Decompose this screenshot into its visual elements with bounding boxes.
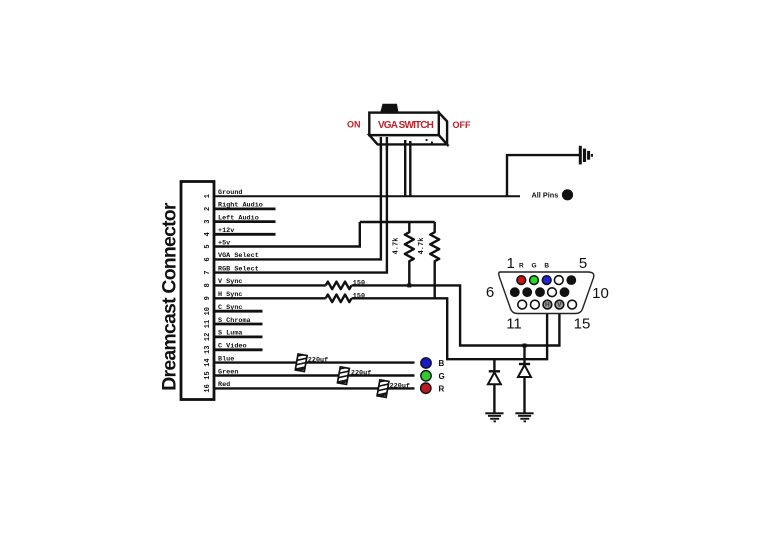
svg-text:Left Audio: Left Audio [218, 214, 259, 222]
wire: V Sync from resistor to VGA pin 14 column [352, 285, 560, 345]
wire: Blue (pin 14) to node B [214, 361, 415, 363]
svg-text:V Sync: V Sync [218, 278, 242, 286]
svg-text:R: R [519, 263, 524, 270]
svg-text:15: 15 [204, 371, 212, 379]
svg-text:5: 5 [579, 255, 587, 272]
svg-text:10: 10 [592, 285, 609, 302]
switch pin 4 wire to ground line [409, 141, 411, 196]
svg-text:C Video: C Video [218, 343, 247, 351]
ground symbol (chassis, right) [579, 146, 593, 165]
wire: +5v (pin 5) to riser [214, 222, 360, 247]
resistor R1 4.7k (V Sync pull-up) [405, 222, 414, 285]
wire: ground line riser to earth symbol [507, 155, 579, 196]
svg-text:12: 12 [204, 333, 212, 341]
wire: S Chroma stub (pin 11) [214, 323, 263, 326]
wire: Left Audio stub (pin 3) [214, 220, 276, 223]
wire: Right Audio stub (pin 2) [214, 207, 276, 210]
node B (blue output) [421, 358, 431, 368]
svg-text:15: 15 [574, 316, 591, 333]
VGA pin 9 (open) [548, 288, 557, 297]
svg-text:11: 11 [506, 316, 522, 333]
wire: H Sync from resistor to VGA pin 13 column [352, 298, 548, 359]
svg-text:G: G [439, 372, 445, 381]
svg-text:OFF: OFF [453, 120, 471, 130]
VGA pin 13 (H Sync) [543, 300, 552, 309]
svg-text:8: 8 [204, 283, 212, 287]
capacitor C2 220uf (Green line) [337, 367, 349, 385]
connector J1 Dreamcast Connector body [181, 182, 214, 400]
ground symbol (under D1) [485, 412, 503, 422]
VGA pin 5 (black) [566, 275, 576, 285]
svg-text:B: B [439, 359, 445, 368]
wire: +12v stub (pin 4) [214, 233, 276, 236]
svg-text:4.7k: 4.7k [418, 238, 426, 255]
svg-text:3: 3 [204, 219, 212, 223]
svg-text:H Sync: H Sync [218, 291, 242, 299]
resistor R2 4.7k (H Sync pull-up) [430, 222, 439, 298]
resistor 150 (H Sync series) [326, 295, 352, 303]
svg-text:4.7k: 4.7k [393, 238, 401, 255]
diode D2 (V Sync clamp) [518, 346, 531, 413]
switch S1: right face [439, 113, 447, 145]
VGA pin 14 (V Sync) [555, 300, 564, 309]
svg-text:Blue: Blue [218, 355, 234, 363]
svg-text:R: R [439, 384, 445, 393]
svg-text:1: 1 [507, 255, 515, 272]
svg-text:9: 9 [204, 296, 212, 300]
wire: C Video stub (pin 13) [214, 348, 263, 351]
switch pin 2 stub [386, 137, 388, 150]
svg-text:V: V [557, 302, 562, 309]
wire: H Sync (pin 9) lead to resistor [214, 297, 326, 299]
wire: +5v rail feeding pull-up resistors [360, 221, 435, 223]
node: All Pins dot [562, 189, 573, 200]
svg-text:Right Audio: Right Audio [218, 202, 263, 210]
svg-text:220uf: 220uf [351, 369, 371, 377]
VGA pin 6 (black) [510, 287, 520, 297]
svg-text:+12v: +12v [218, 227, 234, 235]
wire: RGB Select (pin 7) riser to switch pin 2 [214, 139, 387, 273]
wire: C Sync stub (pin 10) [214, 310, 263, 313]
switch mounting marks [426, 139, 428, 141]
VGA pin 11 (open) [518, 300, 527, 309]
svg-text:All Pins: All Pins [532, 191, 559, 200]
wire: Red (pin 16) to node R [214, 387, 415, 389]
svg-text:220uf: 220uf [390, 382, 410, 390]
svg-text:7: 7 [204, 270, 212, 274]
svg-text:13: 13 [204, 346, 212, 354]
wire: Ground (pin 1) to All Pins node [214, 195, 520, 197]
svg-text:2: 2 [204, 207, 212, 211]
svg-text:Ground: Ground [218, 189, 242, 197]
VGA pin 7 (black) [522, 287, 532, 297]
svg-text:RGB Select: RGB Select [218, 265, 259, 273]
node G (green output) [421, 371, 431, 381]
VGA pin 3 (Blue) [542, 276, 551, 285]
wire: S Luma stub (pin 12) [214, 335, 263, 338]
svg-text:S Luma: S Luma [218, 330, 242, 338]
svg-text:Red: Red [218, 381, 230, 389]
switch S1: toggle knob [381, 104, 398, 112]
svg-text:S Chroma: S Chroma [218, 317, 251, 325]
svg-text:11: 11 [204, 320, 212, 328]
wire: V Sync (pin 8) lead to resistor [214, 284, 326, 286]
svg-text:VGA Select: VGA Select [218, 252, 259, 260]
svg-text:4: 4 [204, 232, 212, 236]
svg-text:C Sync: C Sync [218, 304, 242, 312]
VGA pin 10 (black) [560, 287, 570, 297]
svg-text:16: 16 [204, 384, 212, 392]
switch pin 1 stub [380, 137, 382, 150]
junction: R1 to V Sync line [407, 283, 411, 287]
svg-text:+5v: +5v [218, 239, 230, 247]
VGA pin 8 (black) [535, 287, 545, 297]
capacitor C3 220uf (Red line) [377, 380, 389, 398]
switch pin 3 wire to ground line [404, 140, 406, 196]
svg-text:Green: Green [218, 368, 238, 376]
svg-text:6: 6 [486, 284, 494, 301]
svg-text:H: H [545, 302, 550, 309]
svg-text:Dreamcast Connector: Dreamcast Connector [159, 202, 181, 391]
VGA pin 12 (open) [531, 300, 540, 309]
svg-text:G: G [531, 263, 536, 270]
svg-text:VGA SWITCH: VGA SWITCH [378, 120, 434, 131]
svg-text:220uf: 220uf [308, 356, 328, 364]
node R (red output) [421, 383, 431, 393]
ground symbol (under D2) [515, 412, 533, 422]
svg-text:5: 5 [204, 244, 212, 248]
VGA pin 2 (Green) [530, 276, 539, 285]
diode D1 (H Sync clamp) [488, 359, 501, 412]
svg-text:B: B [544, 263, 549, 270]
junction: diode D2 on V Sync line [523, 344, 527, 348]
svg-text:1: 1 [204, 194, 212, 198]
wire: Green (pin 15) to node G [214, 374, 415, 376]
VGA pin 1 (Red) [517, 276, 526, 285]
svg-text:6: 6 [204, 257, 212, 261]
VGA pin 15 (open) [568, 300, 577, 309]
switch S1 VGA SWITCH: bottom face [369, 135, 447, 144]
capacitor C1 220uf (Blue line) [295, 354, 307, 372]
svg-text:ON: ON [347, 119, 361, 129]
VGA connector J2 shell (DE-15) [499, 272, 594, 314]
switch S1: front face [369, 113, 439, 136]
svg-text:10: 10 [204, 307, 212, 315]
wire: VGA Select (pin 6) riser to switch pin 1 [214, 138, 381, 259]
svg-text:14: 14 [204, 358, 212, 366]
resistor 150 (V Sync series) [326, 282, 352, 290]
VGA pin 4 (open) [554, 276, 563, 285]
